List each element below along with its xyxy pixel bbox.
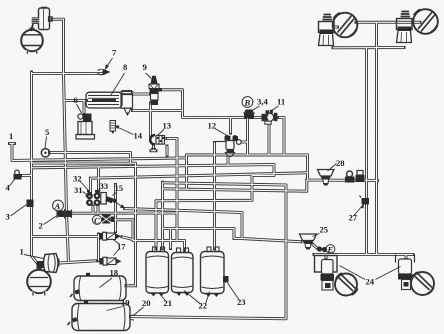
valve 30 bbox=[356, 171, 365, 183]
clutch servo 6 bbox=[76, 114, 95, 140]
air tank 21 (upright) bbox=[146, 247, 169, 297]
point C bbox=[92, 215, 101, 224]
wire clutch and drain lines band bbox=[10, 139, 378, 286]
wire brake valve 9-12 circuit bbox=[133, 90, 285, 165]
air tank 19 bbox=[68, 301, 135, 331]
valve 4 (left edge) bbox=[14, 170, 22, 179]
wire band line 4 zigzag to tank 21 bbox=[32, 165, 308, 249]
valve 15 bbox=[105, 196, 125, 208]
valve 29 bbox=[345, 171, 355, 183]
towing filter 17b bbox=[100, 257, 122, 265]
air tank 22b (upright) bbox=[201, 247, 229, 297]
brake valve 8 (ribbed horizontal cylinder) bbox=[86, 91, 134, 116]
valve 5 (small ring on pipe) bbox=[41, 149, 49, 157]
air valve 13 bbox=[150, 135, 164, 149]
point B bbox=[242, 97, 253, 108]
front left brake chamber bbox=[319, 15, 335, 46]
wire tank manifold lines bbox=[58, 143, 301, 261]
valve 9 bbox=[149, 76, 162, 105]
wire left condensate riser to compressor 1 bbox=[22, 72, 100, 264]
four-circuit protection valve 31/32/33 bbox=[86, 190, 106, 206]
rear left brake chamber bbox=[335, 273, 358, 295]
drain valves D bbox=[317, 246, 327, 252]
rear brake valve block bbox=[315, 256, 338, 291]
valve 34 (B test point) bbox=[243, 110, 255, 119]
safety valve 25 (funnel) bbox=[300, 234, 317, 250]
air cleaner sphere (top left) bbox=[21, 29, 43, 54]
coupling 2 (A test point) bbox=[57, 209, 72, 219]
compressor unit 1 (bottom left) bbox=[27, 254, 58, 296]
air tank 18 bbox=[70, 273, 126, 301]
brake valve 12 bbox=[216, 135, 241, 157]
front right wheel bbox=[413, 9, 438, 34]
unloader arrow 7 bbox=[98, 69, 111, 76]
compressor (top left engine-mounted unit) bbox=[31, 8, 52, 32]
spring element 14 bbox=[110, 121, 116, 135]
point E bbox=[326, 245, 335, 254]
pressure reducer 27 bbox=[360, 196, 370, 205]
towing filter 17a bbox=[99, 232, 121, 240]
wire rear axle circuit bbox=[131, 158, 414, 319]
safety valve 28 (funnel on line) bbox=[318, 170, 335, 186]
front left wheel bbox=[333, 13, 358, 38]
front right brake chamber bbox=[397, 12, 413, 43]
double protection valve 11 bbox=[262, 110, 278, 124]
air tank 22a (upright) bbox=[172, 248, 194, 296]
wire trailer valve line bbox=[313, 244, 318, 248]
coupling 3 on pipe bbox=[27, 200, 34, 208]
wire compressor discharge line bbox=[32, 19, 104, 263]
valve 16 (C test point) bbox=[101, 215, 115, 224]
rear right brake chamber bbox=[396, 255, 435, 296]
point A bbox=[53, 200, 64, 211]
drain valve 23 bbox=[223, 276, 229, 283]
wire front axle circuit bbox=[333, 22, 420, 254]
